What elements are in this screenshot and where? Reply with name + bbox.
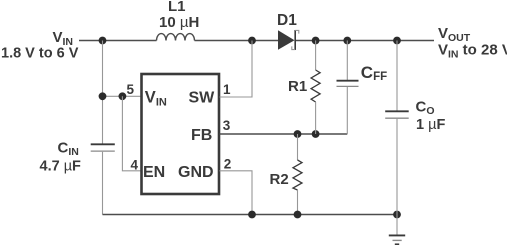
node R2 bottom on ground rail [294,211,302,219]
wire: VIN input to inductor L1 [79,40,157,42]
wire: R1 top lead [315,41,317,71]
wire: CO top lead [396,41,398,111]
node R1 bottom on FB line [312,130,320,138]
wire: CIN bottom to ground rail [102,152,104,215]
svg-text:SW: SW [189,90,216,107]
node CO top [393,37,401,45]
svg-text:1: 1 [223,82,231,97]
wire: VIN node down to CIN [102,41,104,144]
node GND pin on ground rail [248,211,256,219]
wire: R2 top lead [297,134,299,160]
node R2 top on FB line [294,130,302,138]
svg-text:10 µH: 10 µH [159,14,199,31]
node CO bottom / ground [393,211,401,219]
svg-text:EN: EN [143,164,165,181]
node EN branch dot [119,92,127,100]
svg-text:1 µF: 1 µF [416,117,445,133]
svg-text:FB: FB [191,127,212,144]
svg-text:3: 3 [223,118,231,133]
svg-text:R2: R2 [270,171,289,188]
svg-text:4.7 µF: 4.7 µF [40,159,82,175]
svg-text:CO: CO [416,99,435,118]
svg-text:GND: GND [178,164,214,181]
svg-text:VIN to 28 V: VIN to 28 V [438,42,507,61]
resistor R1 [311,70,320,102]
svg-text:1.8 V to 6 V: 1.8 V to 6 V [1,46,79,62]
svg-text:D1: D1 [277,12,297,29]
wire: SW pin 1 up to top rail [220,41,253,98]
node D1 cathode / R1 top [312,37,320,45]
node SW junction on top rail [248,37,256,45]
resistor R2 [293,160,302,190]
capacitor CIN [91,144,115,151]
wire: CFF top lead [346,41,348,81]
svg-text:CIN: CIN [58,140,79,159]
wire: GND pin 2 to ground rail [220,171,253,215]
ground [389,235,405,244]
wire: D1 cathode to VOUT [296,40,434,42]
wire: R2 bottom lead [297,190,299,215]
svg-text:5: 5 [127,82,135,97]
svg-text:4: 4 [131,158,139,173]
wire: CO bottom lead [396,119,398,215]
svg-text:L1: L1 [168,0,186,15]
capacitor CO [385,111,409,118]
node pin5 branch dot [99,92,107,100]
wire: EN tie to VIN [122,96,141,171]
wire: R1 bottom lead [315,102,317,134]
op-amp U1 regulator box [142,74,220,194]
wire: VIN node to pin 5 [103,95,142,97]
wire: L1 to D1 anode [195,40,279,42]
inductor L1 [157,34,195,41]
svg-text:2: 2 [224,157,232,172]
wire: FB pin 3 line [220,133,348,135]
wire: ground rail [103,214,398,216]
diode D1 (Schottky) [278,30,299,50]
wire: CFF bottom to FB line [346,87,348,134]
node VIN junction on top rail [99,37,107,45]
node CFF top [343,37,351,45]
svg-text:CFF: CFF [361,63,387,83]
capacitor CFF [337,81,359,87]
svg-text:R1: R1 [288,78,307,95]
wire: ground stem [396,215,398,235]
